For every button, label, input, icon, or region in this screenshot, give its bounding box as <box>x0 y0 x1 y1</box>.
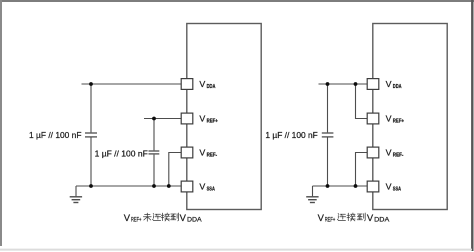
svg-text:REF-: REF- <box>393 152 404 158</box>
svg-text:DDA: DDA <box>187 217 202 224</box>
svg-text:V: V <box>367 213 374 224</box>
svg-text:V: V <box>199 148 205 158</box>
svg-text:SSA: SSA <box>393 186 402 192</box>
svg-text:REF-: REF- <box>207 152 218 158</box>
svg-text:REF+: REF+ <box>393 118 404 124</box>
svg-text:REF+: REF+ <box>131 217 141 224</box>
svg-text:V: V <box>318 213 325 224</box>
svg-text:V: V <box>199 182 205 192</box>
svg-text:V: V <box>386 79 392 89</box>
svg-text:REF+: REF+ <box>325 217 336 224</box>
svg-text:V: V <box>386 114 392 124</box>
svg-text:REF+: REF+ <box>207 118 218 124</box>
svg-text:DDA: DDA <box>207 84 216 90</box>
svg-text:V: V <box>180 213 187 224</box>
svg-text:DDA: DDA <box>393 84 402 90</box>
svg-text:V: V <box>386 148 392 158</box>
svg-text:V: V <box>199 114 205 124</box>
svg-text:1 µF // 100 nF: 1 µF // 100 nF <box>265 130 317 140</box>
svg-text:1 µF // 100 nF: 1 µF // 100 nF <box>95 148 148 158</box>
svg-text:1 µF // 100 nF: 1 µF // 100 nF <box>29 130 82 140</box>
svg-text:V: V <box>386 182 392 192</box>
svg-text:SSA: SSA <box>207 186 216 192</box>
svg-text:V: V <box>124 213 131 224</box>
svg-text:DDA: DDA <box>374 217 390 224</box>
svg-text:V: V <box>199 79 205 89</box>
